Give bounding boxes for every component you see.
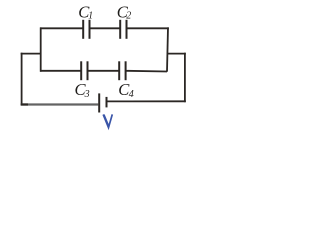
svg-text:1: 1	[88, 11, 93, 22]
wire bottom left dark corner piece	[21, 103, 28, 105]
capacitor C2	[120, 20, 126, 39]
label C1	[78, 2, 93, 21]
wire bottom left segment	[21, 103, 99, 105]
label V	[103, 114, 112, 127]
svg-text:4: 4	[129, 89, 134, 100]
svg-text:3: 3	[84, 89, 90, 100]
capacitor C3	[81, 61, 87, 80]
wire top branch left segment	[40, 27, 83, 29]
label C4	[118, 80, 134, 100]
wire top branch middle segment	[90, 27, 121, 29]
wire inner-left vertical	[40, 27, 42, 71]
capacitor C4	[119, 61, 125, 80]
wire outer-left vertical	[21, 53, 23, 105]
wire inner-right vertical	[167, 27, 168, 71]
wire top branch right segment	[127, 27, 169, 29]
label C2	[117, 2, 131, 21]
battery V long plate	[98, 93, 100, 112]
wire middle branch left segment	[40, 70, 81, 72]
wire bottom right segment	[107, 100, 186, 102]
label C3	[75, 80, 90, 100]
wire outer-right vertical	[184, 53, 186, 102]
capacitor C1	[83, 20, 89, 39]
svg-text:2: 2	[126, 11, 131, 22]
wire middle branch right segment	[126, 70, 167, 73]
wire right jog	[167, 53, 186, 55]
wire middle branch middle segment	[88, 70, 120, 72]
wire left jog	[21, 53, 42, 55]
battery V short plate	[106, 97, 108, 108]
